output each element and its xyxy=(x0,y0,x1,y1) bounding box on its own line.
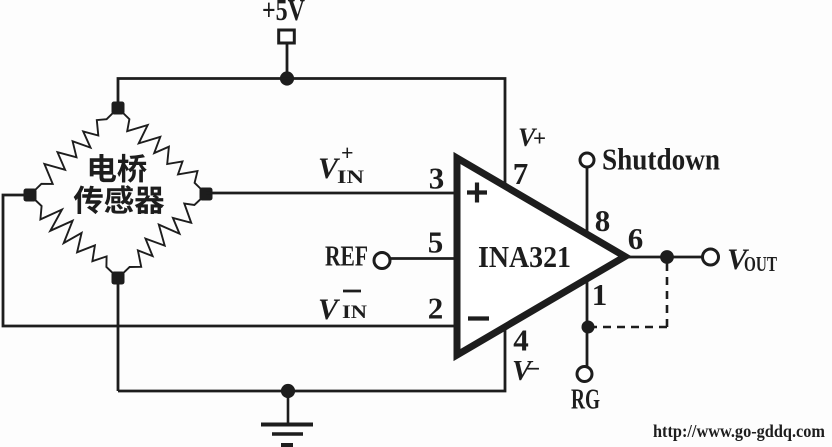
svg-text:+5V: +5V xyxy=(262,0,305,27)
label V+ xyxy=(518,123,546,152)
label 感 (bridge text) xyxy=(105,185,134,213)
svg-text:http://www.go-gddq.com: http://www.go-gddq.com xyxy=(653,421,825,441)
node bridge left xyxy=(24,189,37,202)
svg-text:5: 5 xyxy=(428,225,444,260)
label V-IN xyxy=(318,291,367,326)
wire bridge bottom to ground rail xyxy=(117,278,120,391)
node output junction xyxy=(660,250,674,264)
svg-text:−: − xyxy=(526,356,540,383)
node bridge bottom xyxy=(112,272,125,285)
wire RG pin 1 xyxy=(586,278,589,366)
svg-text:RG: RG xyxy=(571,384,600,416)
resistor bridge top-right xyxy=(118,108,206,194)
terminal RG xyxy=(577,367,592,382)
svg-text:3: 3 xyxy=(429,161,445,196)
wire +5V stub xyxy=(286,43,289,79)
wire output pin 6 xyxy=(622,256,703,259)
ground xyxy=(261,391,313,445)
svg-text:V: V xyxy=(318,293,341,326)
wire top rail xyxy=(118,79,505,187)
+5V terminal xyxy=(279,30,295,43)
label V+IN xyxy=(318,140,364,188)
wire feedback dashed horizontal xyxy=(594,326,667,329)
resistor bridge top-left xyxy=(30,108,118,195)
label 桥 (bridge text) xyxy=(117,154,146,183)
svg-text:+: + xyxy=(533,126,546,151)
label - input xyxy=(468,316,489,320)
label VOUT xyxy=(727,243,777,276)
svg-text:Shutdown: Shutdown xyxy=(602,142,720,177)
wire shutdown to pin 8 xyxy=(586,167,589,235)
svg-text:6: 6 xyxy=(628,221,644,256)
terminal VOUT xyxy=(703,249,719,265)
wire feedback dashed vertical xyxy=(666,263,669,327)
terminal Shutdown xyxy=(580,153,594,167)
label 传 (bridge text) xyxy=(74,185,103,214)
wire bridge right node to pin 3 xyxy=(206,192,456,195)
op-amp U1 INA321 xyxy=(457,158,625,355)
node bridge top xyxy=(112,102,125,115)
wire REF to pin 5 xyxy=(389,257,456,260)
svg-text:IN: IN xyxy=(342,302,367,323)
label V- xyxy=(512,355,540,387)
svg-text:4: 4 xyxy=(513,323,529,358)
svg-text:IN: IN xyxy=(337,167,364,188)
label 器 (bridge text) xyxy=(135,187,164,214)
node bridge right xyxy=(200,188,213,201)
wire bottom rail xyxy=(118,328,505,391)
node ground junction xyxy=(281,384,295,398)
svg-text:8: 8 xyxy=(595,203,611,238)
node RG junction xyxy=(582,321,595,334)
svg-text:INA321: INA321 xyxy=(478,239,571,274)
svg-text:1: 1 xyxy=(592,277,608,312)
resistor bridge bottom-left xyxy=(30,195,118,278)
svg-text:REF: REF xyxy=(325,241,368,273)
node +5V junction xyxy=(280,71,294,85)
svg-text:OUT: OUT xyxy=(744,252,777,276)
terminal REF xyxy=(374,253,390,269)
wire left rail to pin 2 xyxy=(3,195,456,326)
label + input xyxy=(467,183,487,203)
svg-text:+: + xyxy=(341,140,354,165)
svg-text:7: 7 xyxy=(513,156,529,191)
resistor bridge bottom-right xyxy=(118,194,206,278)
label 电 (bridge text) xyxy=(90,154,116,182)
svg-text:2: 2 xyxy=(428,291,444,326)
